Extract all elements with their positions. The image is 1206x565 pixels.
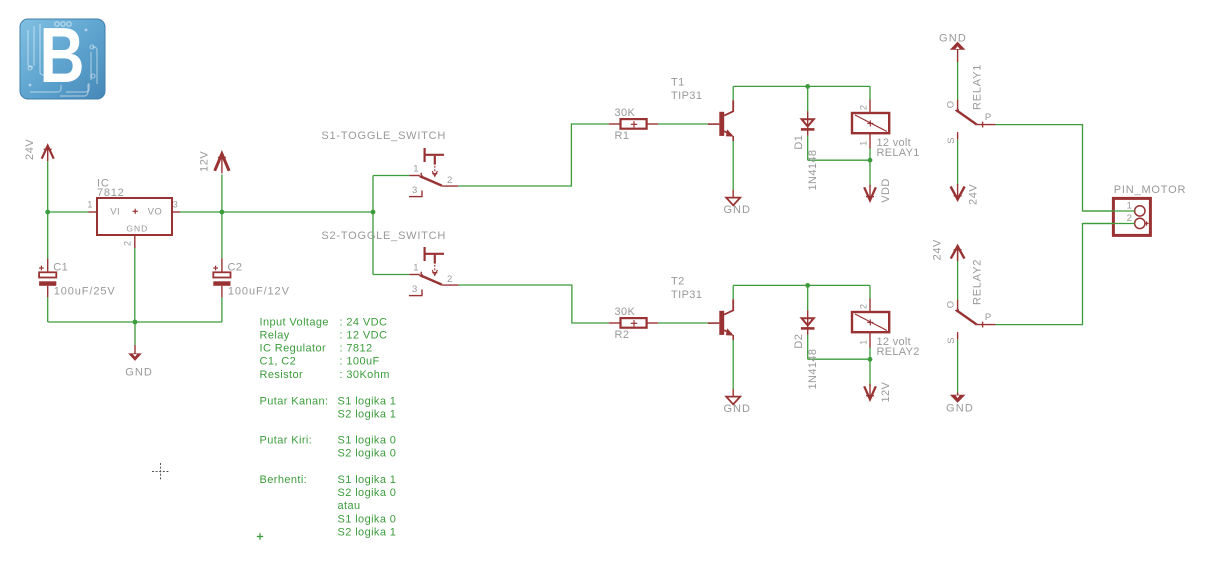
svg-text:2: 2	[859, 105, 869, 110]
svg-text:Resistor: Resistor	[260, 369, 304, 381]
svg-text:RELAY2: RELAY2	[972, 259, 984, 305]
svg-text:3: 3	[412, 284, 417, 295]
svg-text:C2: C2	[228, 262, 243, 274]
svg-text:T2: T2	[671, 276, 685, 288]
svg-text:1: 1	[859, 340, 869, 345]
svg-text:atau: atau	[338, 500, 361, 512]
svg-text:12V: 12V	[199, 151, 211, 172]
svg-text:B: B	[40, 11, 85, 99]
svg-text:2: 2	[859, 304, 869, 309]
svg-text:S1 logika 0: S1 logika 0	[338, 435, 397, 447]
svg-text:1N4148: 1N4148	[807, 349, 819, 390]
svg-text:1: 1	[87, 200, 92, 210]
svg-text:S: S	[946, 337, 957, 343]
svg-text:: 100uF: : 100uF	[340, 356, 380, 368]
svg-text:T1: T1	[671, 77, 685, 89]
svg-text:1: 1	[859, 141, 869, 146]
svg-text:TIP31: TIP31	[671, 289, 702, 301]
svg-text:100uF/25V: 100uF/25V	[54, 285, 116, 297]
svg-text:2: 2	[1127, 213, 1132, 224]
svg-text:1: 1	[413, 263, 418, 274]
svg-text:R1: R1	[615, 130, 630, 142]
svg-text:GND: GND	[126, 224, 148, 234]
svg-text:S1 logika 0: S1 logika 0	[338, 513, 397, 525]
svg-text:Input Voltage: Input Voltage	[260, 316, 329, 328]
svg-text:Putar Kiri:: Putar Kiri:	[260, 435, 313, 447]
svg-text:S1 logika 1: S1 logika 1	[338, 474, 397, 486]
svg-text:S2 logika 1: S2 logika 1	[338, 526, 397, 538]
svg-text:30K: 30K	[615, 107, 636, 119]
svg-text:100uF/12V: 100uF/12V	[228, 285, 290, 297]
svg-text:S2 logika 0: S2 logika 0	[338, 487, 397, 499]
svg-text:30K: 30K	[615, 306, 636, 318]
svg-text:RELAY2: RELAY2	[877, 346, 920, 358]
svg-text:Putar Kanan:: Putar Kanan:	[260, 395, 329, 407]
svg-text:C1: C1	[53, 262, 68, 274]
svg-text:TIP31: TIP31	[671, 90, 702, 102]
svg-text:O: O	[946, 101, 957, 108]
svg-text:GND: GND	[724, 204, 751, 216]
svg-text:VO: VO	[148, 207, 163, 218]
svg-text:3: 3	[412, 185, 417, 196]
svg-text:3: 3	[173, 200, 178, 210]
svg-text:S2 logika 1: S2 logika 1	[338, 408, 397, 420]
svg-text:RELAY1: RELAY1	[877, 147, 920, 159]
svg-text:C1, C2: C1, C2	[260, 356, 297, 368]
svg-text:1: 1	[1127, 200, 1132, 211]
svg-text:1N4148: 1N4148	[807, 150, 819, 191]
svg-text:D1: D1	[793, 135, 805, 150]
svg-text:7812: 7812	[97, 187, 124, 199]
svg-text:2: 2	[123, 241, 133, 246]
svg-text:O: O	[946, 301, 957, 308]
svg-text:P: P	[985, 312, 991, 323]
svg-text:IC Regulator: IC Regulator	[260, 343, 327, 355]
svg-text:S1-TOGGLE_SWITCH: S1-TOGGLE_SWITCH	[321, 130, 446, 142]
svg-text:24V: 24V	[932, 239, 944, 260]
svg-text:RELAY1: RELAY1	[972, 64, 984, 110]
svg-text:: 12 VDC: : 12 VDC	[340, 330, 388, 342]
svg-text:12V: 12V	[880, 381, 892, 402]
svg-text:24V: 24V	[24, 139, 36, 160]
svg-text:GND: GND	[939, 32, 967, 44]
svg-text:GND: GND	[724, 403, 751, 415]
svg-text:VDD: VDD	[880, 178, 892, 202]
svg-text:2: 2	[447, 274, 452, 285]
svg-text:P: P	[985, 112, 991, 123]
svg-text:2: 2	[447, 175, 452, 186]
svg-text:: 24 VDC: : 24 VDC	[340, 316, 388, 328]
svg-text:GND: GND	[946, 402, 974, 414]
svg-text:R2: R2	[615, 329, 630, 341]
svg-text:S1 logika 1: S1 logika 1	[338, 395, 397, 407]
svg-text:: 30Kohm: : 30Kohm	[340, 369, 390, 381]
svg-text:1: 1	[413, 164, 418, 175]
svg-text:Berhenti:: Berhenti:	[260, 474, 308, 486]
svg-text:VI: VI	[110, 207, 120, 218]
svg-text:S: S	[946, 137, 957, 143]
svg-text:S2-TOGGLE_SWITCH: S2-TOGGLE_SWITCH	[321, 230, 446, 242]
svg-text:24V: 24V	[967, 184, 979, 205]
svg-text:PIN_MOTOR: PIN_MOTOR	[1114, 184, 1186, 196]
svg-text:: 7812: : 7812	[340, 343, 373, 355]
svg-text:S2 logika 0: S2 logika 0	[338, 448, 397, 460]
svg-text:Relay: Relay	[260, 330, 290, 342]
svg-text:GND: GND	[125, 367, 153, 379]
svg-text:D2: D2	[793, 334, 805, 349]
